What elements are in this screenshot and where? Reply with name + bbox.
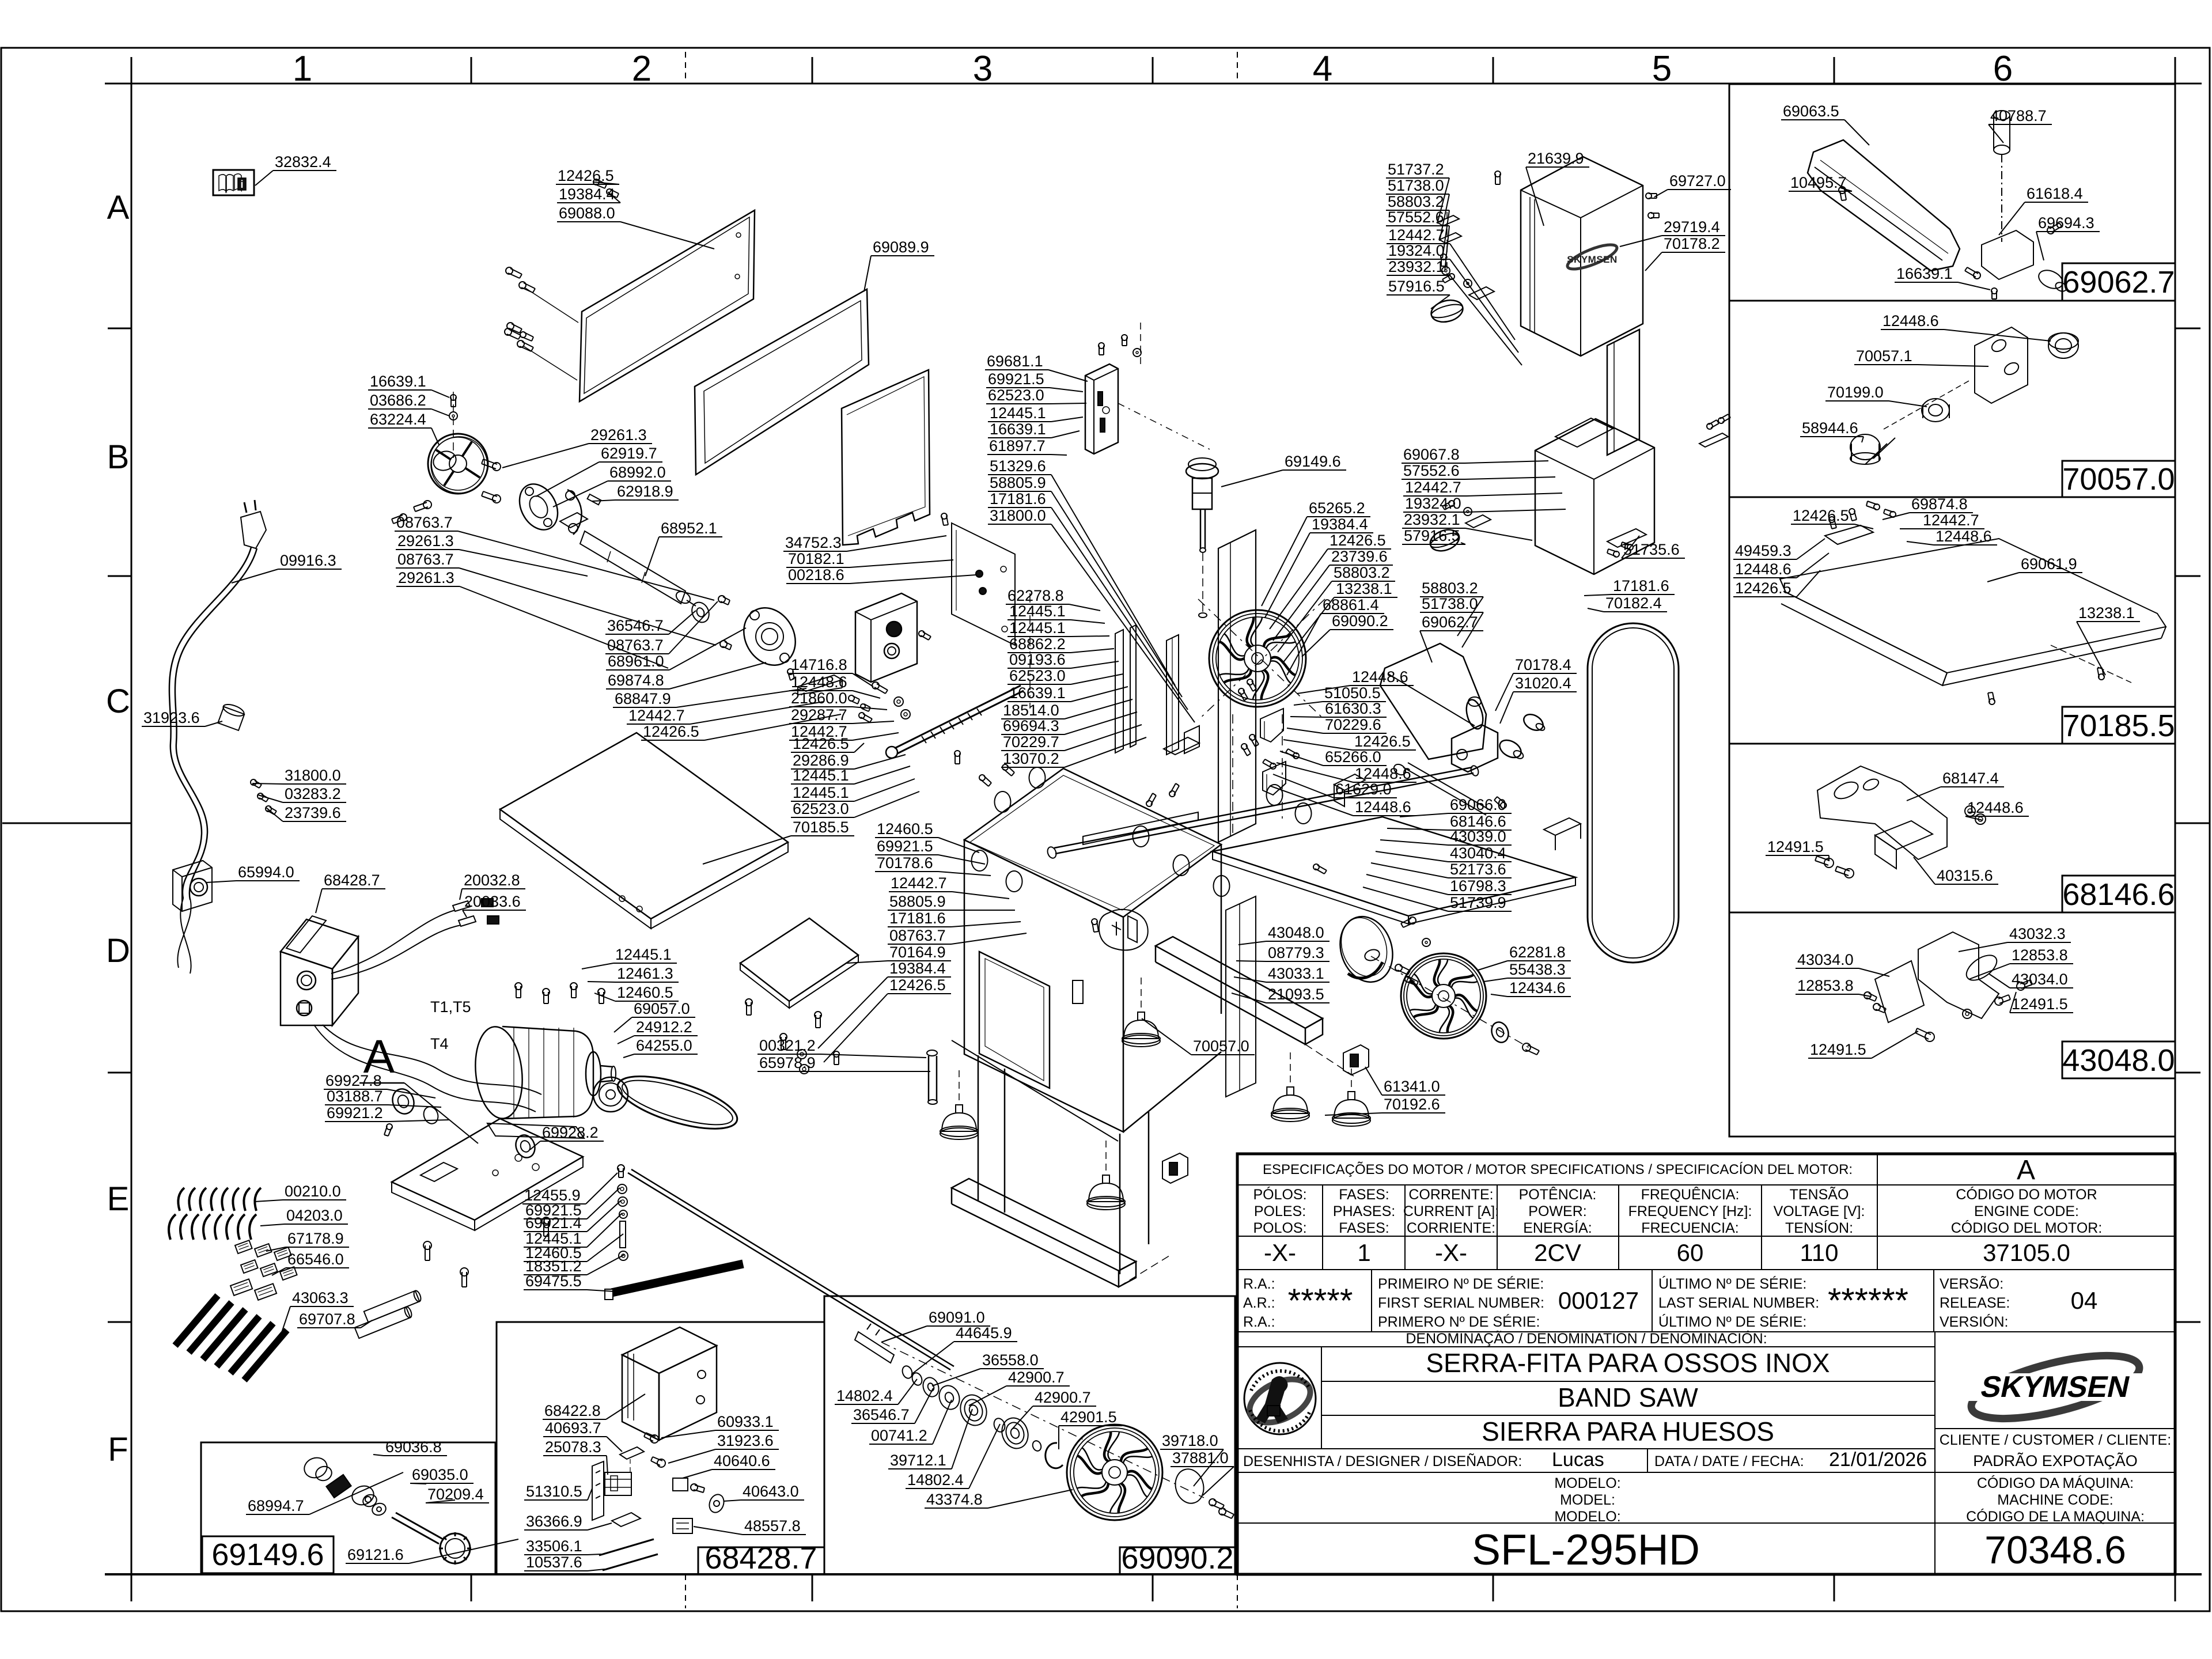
lower door 61897.7 bbox=[842, 370, 930, 545]
svg-text:FIRST SERIAL NUMBER:: FIRST SERIAL NUMBER: bbox=[1378, 1295, 1544, 1311]
svg-text:29261.3: 29261.3 bbox=[398, 569, 454, 586]
clip 40693.7 bbox=[620, 1447, 644, 1459]
svg-text:17181.6: 17181.6 bbox=[889, 910, 946, 927]
svg-text:19324.0: 19324.0 bbox=[1388, 242, 1445, 259]
pedal bracket 43032.3 bbox=[1918, 932, 1999, 1018]
box 69149.6 bbox=[201, 1442, 495, 1574]
svg-text:10495.7: 10495.7 bbox=[1790, 174, 1847, 191]
svg-text:70178.4: 70178.4 bbox=[1515, 656, 1571, 673]
svg-text:70185.5: 70185.5 bbox=[793, 819, 849, 836]
svg-text:51050.5: 51050.5 bbox=[1324, 684, 1381, 702]
svg-text:******: ****** bbox=[1828, 1281, 1908, 1320]
svg-text:69707.8: 69707.8 bbox=[299, 1310, 355, 1328]
switch 65994.0 bbox=[173, 861, 212, 911]
svg-text:43034.0: 43034.0 bbox=[2012, 971, 2068, 988]
svg-text:VERSÃO:: VERSÃO: bbox=[1940, 1275, 2003, 1292]
shaft 68952.1 bbox=[580, 531, 685, 604]
svg-text:12461.3: 12461.3 bbox=[617, 965, 673, 982]
svg-text:16639.1: 16639.1 bbox=[1009, 684, 1066, 702]
svg-text:20032.8: 20032.8 bbox=[464, 872, 520, 889]
svg-text:12426.5: 12426.5 bbox=[558, 167, 614, 184]
svg-text:63224.4: 63224.4 bbox=[370, 411, 426, 428]
svg-text:40315.6: 40315.6 bbox=[1937, 867, 1993, 884]
bolts 29261.3 bbox=[493, 463, 501, 471]
svg-text:49459.3: 49459.3 bbox=[1735, 542, 1791, 559]
svg-text:MODEL:: MODEL: bbox=[1560, 1492, 1615, 1508]
snap ring 42901.5 bbox=[1046, 1443, 1063, 1468]
screws scattered centre bbox=[979, 775, 985, 781]
guard knob block bbox=[1452, 725, 1498, 772]
svg-text:69091.0: 69091.0 bbox=[929, 1309, 985, 1326]
brake screws bbox=[1395, 964, 1402, 971]
svg-text:19384.4: 19384.4 bbox=[889, 960, 946, 977]
svg-text:ESPECIFICAÇÕES DO MOTOR / MOTO: ESPECIFICAÇÕES DO MOTOR / MOTOR SPECIFIC… bbox=[1263, 1161, 1853, 1177]
plate 40315.6 bbox=[1875, 821, 1933, 850]
svg-text:36558.0: 36558.0 bbox=[982, 1351, 1039, 1369]
svg-text:23932.1: 23932.1 bbox=[1404, 511, 1460, 528]
svg-text:16639.1: 16639.1 bbox=[990, 421, 1046, 438]
bushing 70199.0 bbox=[1922, 399, 1949, 422]
svg-text:65265.2: 65265.2 bbox=[1309, 499, 1365, 517]
legs front floor rail bbox=[952, 1179, 1136, 1271]
svg-text:65978.9: 65978.9 bbox=[759, 1054, 816, 1071]
svg-text:67178.9: 67178.9 bbox=[287, 1230, 344, 1247]
svg-text:68862.2: 68862.2 bbox=[1009, 635, 1066, 653]
svg-text:00210.0: 00210.0 bbox=[285, 1183, 341, 1200]
svg-text:110: 110 bbox=[1800, 1239, 1839, 1266]
svg-text:08779.3: 08779.3 bbox=[1268, 944, 1324, 961]
svg-text:TENSÍON:: TENSÍON: bbox=[1785, 1219, 1853, 1236]
springs 00210.0/04203.0 bbox=[178, 1188, 184, 1211]
svg-text:58805.9: 58805.9 bbox=[889, 893, 946, 910]
svg-text:43374.8: 43374.8 bbox=[926, 1491, 983, 1508]
bushing 69036.8 bbox=[301, 1455, 329, 1481]
svg-text:69067.8: 69067.8 bbox=[1403, 446, 1460, 463]
ATA circular logo bbox=[1321, 1347, 1322, 1449]
svg-text:62278.8: 62278.8 bbox=[1007, 587, 1064, 604]
svg-text:08763.7: 08763.7 bbox=[396, 514, 453, 531]
svg-text:i: i bbox=[240, 179, 243, 190]
svg-text:12460.5: 12460.5 bbox=[617, 984, 673, 1001]
svg-text:CORRENTE:: CORRENTE: bbox=[1408, 1187, 1493, 1203]
svg-text:12442.7: 12442.7 bbox=[1388, 226, 1445, 244]
assembly label box 70057.0 bbox=[2062, 461, 2175, 497]
lower wheel in box bbox=[1067, 1425, 1162, 1520]
svg-text:SIERRA PARA HUESOS: SIERRA PARA HUESOS bbox=[1482, 1416, 1774, 1446]
denomination row bbox=[1934, 1332, 1935, 1574]
hinge pieces 51737.2 bbox=[1437, 215, 1459, 226]
svg-text:03188.7: 03188.7 bbox=[327, 1088, 383, 1105]
handwheel screws bbox=[423, 501, 431, 509]
svg-text:SKYMSEN: SKYMSEN bbox=[1978, 1370, 2133, 1404]
svg-text:12426.5: 12426.5 bbox=[889, 976, 946, 994]
svg-text:51735.6: 51735.6 bbox=[1623, 541, 1680, 558]
svg-text:ENGINE CODE:: ENGINE CODE: bbox=[1974, 1203, 2079, 1219]
svg-text:ÚLTIMO Nº DE SÉRIE:: ÚLTIMO Nº DE SÉRIE: bbox=[1658, 1313, 1806, 1330]
svg-text:12448.6: 12448.6 bbox=[1352, 668, 1408, 685]
svg-text:12448.6: 12448.6 bbox=[1355, 765, 1411, 782]
svg-text:21639.9: 21639.9 bbox=[1528, 150, 1584, 167]
blade guard 69062.7 bbox=[1380, 643, 1486, 759]
svg-text:BAND SAW: BAND SAW bbox=[1558, 1382, 1698, 1412]
svg-text:12445.1: 12445.1 bbox=[793, 784, 849, 801]
svg-text:69694.3: 69694.3 bbox=[2038, 214, 2094, 232]
wires to lugs 20032.8 bbox=[331, 910, 461, 979]
svg-text:17181.6: 17181.6 bbox=[1613, 577, 1669, 594]
svg-text:40643.0: 40643.0 bbox=[743, 1483, 799, 1500]
wing knobs bbox=[1497, 737, 1524, 762]
housing top hat bbox=[1555, 418, 1613, 447]
lower housing bbox=[1535, 419, 1654, 574]
svg-text:PRIMERO Nº DE SÉRIE:: PRIMERO Nº DE SÉRIE: bbox=[1378, 1313, 1540, 1330]
svg-text:69062.7: 69062.7 bbox=[1422, 613, 1478, 631]
svg-text:12426.5: 12426.5 bbox=[1330, 532, 1386, 549]
svg-text:20033.6: 20033.6 bbox=[464, 893, 521, 910]
svg-text:03283.2: 03283.2 bbox=[285, 785, 341, 802]
svg-text:12442.7: 12442.7 bbox=[1405, 479, 1461, 496]
svg-text:MODELO:: MODELO: bbox=[1554, 1509, 1620, 1525]
cover 37881.0 bbox=[1172, 1466, 1207, 1506]
svg-text:12426.5: 12426.5 bbox=[1354, 733, 1411, 750]
power cable bbox=[169, 547, 251, 899]
svg-text:DESENHISTA / DESIGNER / DISEÑA: DESENHISTA / DESIGNER / DISEÑADOR: bbox=[1243, 1453, 1522, 1469]
bushing 69035.0 bbox=[350, 1483, 377, 1508]
svg-text:21093.5: 21093.5 bbox=[1268, 986, 1324, 1003]
svg-text:61629.0: 61629.0 bbox=[1335, 781, 1392, 798]
svg-text:12426.5: 12426.5 bbox=[643, 723, 699, 740]
svg-text:69121.6: 69121.6 bbox=[347, 1546, 404, 1563]
svg-text:31800.0: 31800.0 bbox=[285, 767, 341, 784]
svg-text:37881.0: 37881.0 bbox=[1172, 1449, 1229, 1467]
svg-text:51738.0: 51738.0 bbox=[1422, 595, 1478, 612]
svg-text:68428.7: 68428.7 bbox=[324, 872, 380, 889]
spec values row bbox=[1237, 1269, 2175, 1270]
svg-text:43034.0: 43034.0 bbox=[1797, 951, 1854, 968]
svg-text:69088.0: 69088.0 bbox=[559, 204, 615, 222]
plunger 69149.6 bbox=[1186, 464, 1218, 479]
assembly label box 68146.6 bbox=[2062, 876, 2175, 912]
svg-text:12426.5: 12426.5 bbox=[1793, 507, 1849, 524]
svg-text:000127: 000127 bbox=[1558, 1287, 1639, 1314]
svg-text:70229.6: 70229.6 bbox=[1325, 716, 1381, 733]
clamp knob on ext table bbox=[1334, 774, 1365, 790]
terminals 40640.6/40643.0/48557.8 bbox=[673, 1478, 688, 1491]
svg-text:70178.2: 70178.2 bbox=[1664, 235, 1720, 252]
svg-text:CÓDIGO DE LA MAQUINA:: CÓDIGO DE LA MAQUINA: bbox=[1966, 1508, 2145, 1525]
rubber strips 43063.3 bbox=[175, 1296, 218, 1346]
bolts chain left-mid bbox=[872, 682, 879, 689]
svg-text:42900.7: 42900.7 bbox=[1008, 1369, 1065, 1386]
guard leader rod bbox=[1403, 767, 1486, 815]
svg-text:12491.5: 12491.5 bbox=[1767, 838, 1824, 855]
fold marks dashed bbox=[685, 52, 686, 84]
handwheel 63224.4 bbox=[428, 434, 488, 494]
svg-text:42900.7: 42900.7 bbox=[1035, 1389, 1091, 1406]
svg-text:CÓDIGO DO MOTOR: CÓDIGO DO MOTOR bbox=[1956, 1186, 2097, 1203]
svg-text:70182.1: 70182.1 bbox=[788, 550, 844, 567]
svg-text:39718.0: 39718.0 bbox=[1162, 1432, 1218, 1449]
svg-text:12442.7: 12442.7 bbox=[1923, 512, 1979, 529]
svg-text:69149.6: 69149.6 bbox=[211, 1537, 324, 1572]
svg-text:62281.8: 62281.8 bbox=[1509, 944, 1566, 961]
svg-text:DATA / DATE / FECHA:: DATA / DATE / FECHA: bbox=[1654, 1453, 1804, 1469]
cliente row bbox=[1935, 1428, 2175, 1429]
svg-text:14802.4: 14802.4 bbox=[836, 1387, 893, 1404]
svg-text:FREQUENCY [Hz]:: FREQUENCY [Hz]: bbox=[1628, 1203, 1752, 1219]
svg-text:57552.6: 57552.6 bbox=[1403, 462, 1460, 479]
cable gland 31923.6 bbox=[217, 702, 246, 730]
set screw 68994.7 bbox=[326, 1475, 351, 1498]
svg-text:57916.5: 57916.5 bbox=[1388, 278, 1445, 295]
screws 12491.5 bbox=[1824, 858, 1834, 868]
switch 25078.3 bbox=[605, 1472, 631, 1495]
svg-text:VERSIÓN:: VERSIÓN: bbox=[1940, 1313, 2008, 1330]
svg-text:-X-: -X- bbox=[1435, 1239, 1467, 1266]
tubes 69707.8 bbox=[364, 1290, 422, 1322]
door panel 69088.0 bbox=[579, 210, 755, 402]
svg-text:33506.1: 33506.1 bbox=[526, 1537, 582, 1555]
svg-text:24912.2: 24912.2 bbox=[636, 1018, 692, 1036]
svg-text:69928.2: 69928.2 bbox=[542, 1124, 599, 1141]
main column bbox=[1218, 530, 1256, 842]
key 62918.9 bbox=[588, 494, 601, 505]
svg-text:69066.0: 69066.0 bbox=[1450, 796, 1506, 813]
svg-text:66546.0: 66546.0 bbox=[287, 1251, 344, 1268]
washer 36546.7 bbox=[689, 600, 713, 625]
guide bars centre bbox=[1115, 630, 1123, 753]
svg-text:POTÊNCIA:: POTÊNCIA: bbox=[1519, 1186, 1597, 1203]
svg-text:69921.5: 69921.5 bbox=[877, 838, 933, 855]
wires T1T5 T4 bbox=[323, 1025, 541, 1094]
foot at 1920,2040 bbox=[1103, 1175, 1109, 1183]
mount bracket 49459.3 bbox=[1825, 525, 1873, 544]
svg-text:03686.2: 03686.2 bbox=[370, 392, 426, 409]
rod + knob 69121.6 bbox=[392, 1517, 439, 1544]
svg-text:68992.0: 68992.0 bbox=[609, 464, 666, 481]
svg-text:12853.8: 12853.8 bbox=[1797, 977, 1854, 994]
bracket 68847.9 bbox=[798, 675, 842, 691]
side bracket 65266.0 small bbox=[1184, 726, 1199, 753]
svg-text:29261.3: 29261.3 bbox=[590, 426, 647, 444]
svg-text:CÓDIGO DA MÁQUINA:: CÓDIGO DA MÁQUINA: bbox=[1977, 1475, 2134, 1491]
cabinet front face bbox=[964, 840, 1123, 1132]
SKYMSEN logo big bbox=[1960, 1343, 2150, 1431]
svg-text:19324.0: 19324.0 bbox=[1405, 495, 1461, 512]
svg-text:69090.2: 69090.2 bbox=[1121, 1541, 1233, 1575]
svg-text:69090.2: 69090.2 bbox=[1332, 612, 1388, 630]
svg-text:POLES:: POLES: bbox=[1254, 1203, 1306, 1219]
svg-text:70229.7: 70229.7 bbox=[1003, 733, 1059, 751]
svg-text:69921.2: 69921.2 bbox=[327, 1104, 383, 1122]
svg-text:62918.9: 62918.9 bbox=[617, 483, 673, 500]
svg-text:58803.2: 58803.2 bbox=[1388, 193, 1444, 210]
svg-text:LAST SERIAL NUMBER:: LAST SERIAL NUMBER: bbox=[1658, 1295, 1819, 1311]
screws 12426.5 bottom bbox=[1989, 699, 1995, 704]
svg-text:58805.9: 58805.9 bbox=[990, 474, 1046, 491]
bushing 69928.2 bbox=[513, 1132, 538, 1161]
latch lower 57916.5 bbox=[1427, 526, 1462, 555]
spring rod 29287.7 bbox=[895, 685, 1021, 748]
svg-text:62523.0: 62523.0 bbox=[793, 800, 849, 817]
door screws pair B bbox=[507, 323, 514, 329]
column bracket on right bbox=[1226, 896, 1256, 1097]
threaded rod 12455.9 group bbox=[618, 1165, 624, 1172]
svg-text:3: 3 bbox=[973, 49, 993, 89]
svg-text:44645.9: 44645.9 bbox=[956, 1324, 1012, 1342]
pin 40788.7 bbox=[1994, 111, 2010, 120]
svg-text:MACHINE CODE:: MACHINE CODE: bbox=[1997, 1492, 2113, 1508]
housing column bbox=[1607, 329, 1639, 455]
svg-text:16798.3: 16798.3 bbox=[1450, 877, 1506, 895]
svg-text:08763.7: 08763.7 bbox=[889, 927, 946, 944]
upper band wheel bbox=[1209, 610, 1306, 707]
svg-text:-X-: -X- bbox=[1264, 1239, 1296, 1266]
svg-text:1: 1 bbox=[293, 49, 312, 89]
svg-text:70185.5: 70185.5 bbox=[2062, 709, 2175, 743]
svg-text:23932.1: 23932.1 bbox=[1388, 258, 1445, 275]
svg-text:DENOMINAÇÃO / DENOMINATION / D: DENOMINAÇÃO / DENOMINATION / DENOMINACIÓ… bbox=[1406, 1330, 1767, 1347]
svg-text:4: 4 bbox=[1313, 49, 1332, 89]
svg-text:32832.4: 32832.4 bbox=[275, 153, 331, 171]
svg-text:42901.5: 42901.5 bbox=[1060, 1408, 1117, 1426]
bearing 69927.8 etc bbox=[389, 1086, 418, 1117]
svg-text:69475.5: 69475.5 bbox=[525, 1272, 582, 1290]
svg-text:69089.9: 69089.9 bbox=[873, 238, 929, 256]
svg-text:69921.5: 69921.5 bbox=[988, 370, 1044, 388]
svg-text:17181.6: 17181.6 bbox=[990, 490, 1046, 507]
svg-text:A: A bbox=[107, 189, 130, 226]
svg-text:62523.0: 62523.0 bbox=[1009, 667, 1066, 684]
svg-text:43040.4: 43040.4 bbox=[1450, 844, 1506, 862]
door screws bbox=[506, 267, 513, 274]
svg-text:70057.0: 70057.0 bbox=[2062, 462, 2175, 497]
svg-text:12448.6: 12448.6 bbox=[1735, 560, 1791, 578]
clips 66546.0 bbox=[230, 1279, 252, 1296]
svg-text:69921.4: 69921.4 bbox=[525, 1214, 582, 1232]
svg-text:6: 6 bbox=[1993, 49, 2013, 89]
svg-text:12448.6: 12448.6 bbox=[1883, 312, 1939, 329]
svg-text:09193.6: 09193.6 bbox=[1009, 651, 1066, 668]
assembly label box 43048.0 bbox=[2062, 1041, 2175, 1078]
svg-text:12426.5: 12426.5 bbox=[1735, 579, 1791, 597]
svg-text:69036.8: 69036.8 bbox=[385, 1438, 442, 1456]
svg-text:12448.6: 12448.6 bbox=[1355, 798, 1411, 816]
svg-text:FASES:: FASES: bbox=[1339, 1220, 1389, 1236]
cabinet right face bbox=[1221, 844, 1222, 1014]
pedal plate 43034.0 bbox=[1875, 961, 1924, 1022]
box 68422.8 bbox=[622, 1355, 659, 1440]
bearing 42900.7 b bbox=[998, 1414, 1032, 1452]
svg-text:70199.0: 70199.0 bbox=[1827, 384, 1884, 401]
spec column headers bbox=[1322, 1185, 1323, 1270]
main work table 70185.5 bbox=[500, 733, 788, 919]
slide brackets on column bbox=[1260, 709, 1283, 742]
svg-text:12448.6: 12448.6 bbox=[1967, 799, 2024, 816]
svg-text:31923.6: 31923.6 bbox=[717, 1432, 774, 1449]
svg-text:VOLTAGE [V]:: VOLTAGE [V]: bbox=[1774, 1203, 1865, 1219]
aux table bolts bbox=[745, 999, 752, 1006]
svg-text:FASES:: FASES: bbox=[1339, 1187, 1389, 1203]
wing bracket right of table bbox=[1544, 818, 1581, 835]
box 69090.2 bbox=[824, 1296, 1235, 1574]
svg-text:70182.4: 70182.4 bbox=[1605, 594, 1662, 612]
svg-text:69035.0: 69035.0 bbox=[412, 1466, 468, 1483]
cabinet legs bbox=[978, 1055, 979, 1201]
svg-text:F: F bbox=[108, 1431, 128, 1468]
svg-text:60933.1: 60933.1 bbox=[717, 1413, 774, 1430]
plate bolts below bbox=[423, 1241, 431, 1249]
svg-text:12448.6: 12448.6 bbox=[791, 673, 847, 691]
svg-text:R.A.:: R.A.: bbox=[1243, 1314, 1275, 1330]
svg-text:12491.5: 12491.5 bbox=[2012, 995, 2068, 1013]
assembly label box 69062.7 bbox=[2062, 263, 2175, 301]
bracket 68147.4 bbox=[1817, 766, 1947, 859]
blade guard 69063.5 bbox=[1808, 140, 1960, 271]
svg-text:68146.6: 68146.6 bbox=[2062, 877, 2175, 912]
svg-text:70057.1: 70057.1 bbox=[1856, 347, 1912, 365]
upper housing assembly bbox=[1521, 157, 1643, 356]
svg-text:12445.1: 12445.1 bbox=[1009, 603, 1066, 620]
svg-text:51739.9: 51739.9 bbox=[1450, 894, 1506, 911]
svg-text:29261.3: 29261.3 bbox=[397, 532, 454, 550]
svg-text:68961.0: 68961.0 bbox=[608, 653, 664, 670]
svg-text:12853.8: 12853.8 bbox=[2012, 946, 2068, 964]
hinges right bbox=[1699, 433, 1728, 447]
svg-text:64255.0: 64255.0 bbox=[636, 1037, 692, 1054]
skymsen swoosh on housing bbox=[1565, 240, 1619, 274]
brake disc bbox=[1332, 910, 1401, 989]
door top screws bbox=[593, 179, 599, 185]
svg-text:43063.3: 43063.3 bbox=[292, 1289, 349, 1306]
bracket 36366.9 bbox=[612, 1513, 641, 1527]
svg-text:FRECUENCIA:: FRECUENCIA: bbox=[1641, 1220, 1738, 1236]
svg-text:ÚLTIMO Nº DE SÉRIE:: ÚLTIMO Nº DE SÉRIE: bbox=[1658, 1275, 1806, 1292]
svg-text:12442.7: 12442.7 bbox=[628, 707, 685, 724]
column ticks top/bottom bbox=[471, 57, 472, 84]
svg-text:55438.3: 55438.3 bbox=[1509, 961, 1566, 978]
washers/bearings chain bbox=[901, 1365, 914, 1380]
svg-text:14802.4: 14802.4 bbox=[907, 1471, 964, 1488]
bracket 70057.1 bbox=[1975, 327, 2028, 403]
cabinet top face bbox=[964, 768, 1221, 917]
title block outer bbox=[1237, 1154, 2175, 1574]
svg-text:12442.7: 12442.7 bbox=[891, 874, 947, 892]
svg-text:31020.4: 31020.4 bbox=[1515, 675, 1571, 692]
right extension table bbox=[1213, 817, 1575, 916]
right sub-assembly panels frame bbox=[1729, 84, 2175, 1137]
svg-text:68952.1: 68952.1 bbox=[661, 520, 717, 537]
blade slot front bbox=[1073, 980, 1083, 1003]
rocker switch A bbox=[1162, 1153, 1188, 1183]
svg-text:CLIENTE / CUSTOMER / CLIENTE:: CLIENTE / CUSTOMER / CLIENTE: bbox=[1940, 1432, 2171, 1448]
svg-text:51738.0: 51738.0 bbox=[1388, 177, 1444, 194]
dash links bbox=[1118, 403, 1210, 449]
svg-text:13238.1: 13238.1 bbox=[2078, 604, 2135, 622]
screws near panel bbox=[941, 513, 947, 519]
foot at 2240,1887 bbox=[1287, 1087, 1294, 1095]
aux table 70164.9 bbox=[740, 918, 858, 1001]
screws 12853.8 / 12491.5 bbox=[1864, 992, 1871, 999]
washer 70209.4 bbox=[370, 1501, 387, 1517]
svg-text:68428.7: 68428.7 bbox=[704, 1541, 817, 1575]
saw blade band bbox=[1588, 623, 1679, 963]
svg-text:SERRA-FITA PARA OSSOS INOX: SERRA-FITA PARA OSSOS INOX bbox=[1426, 1348, 1830, 1378]
screw 10495.7 bbox=[1839, 187, 1846, 194]
table plate 69061.9 bbox=[1780, 539, 2166, 673]
svg-text:65266.0: 65266.0 bbox=[1325, 748, 1381, 766]
svg-text:D: D bbox=[106, 932, 130, 969]
legs right rail bbox=[1156, 937, 1323, 1028]
